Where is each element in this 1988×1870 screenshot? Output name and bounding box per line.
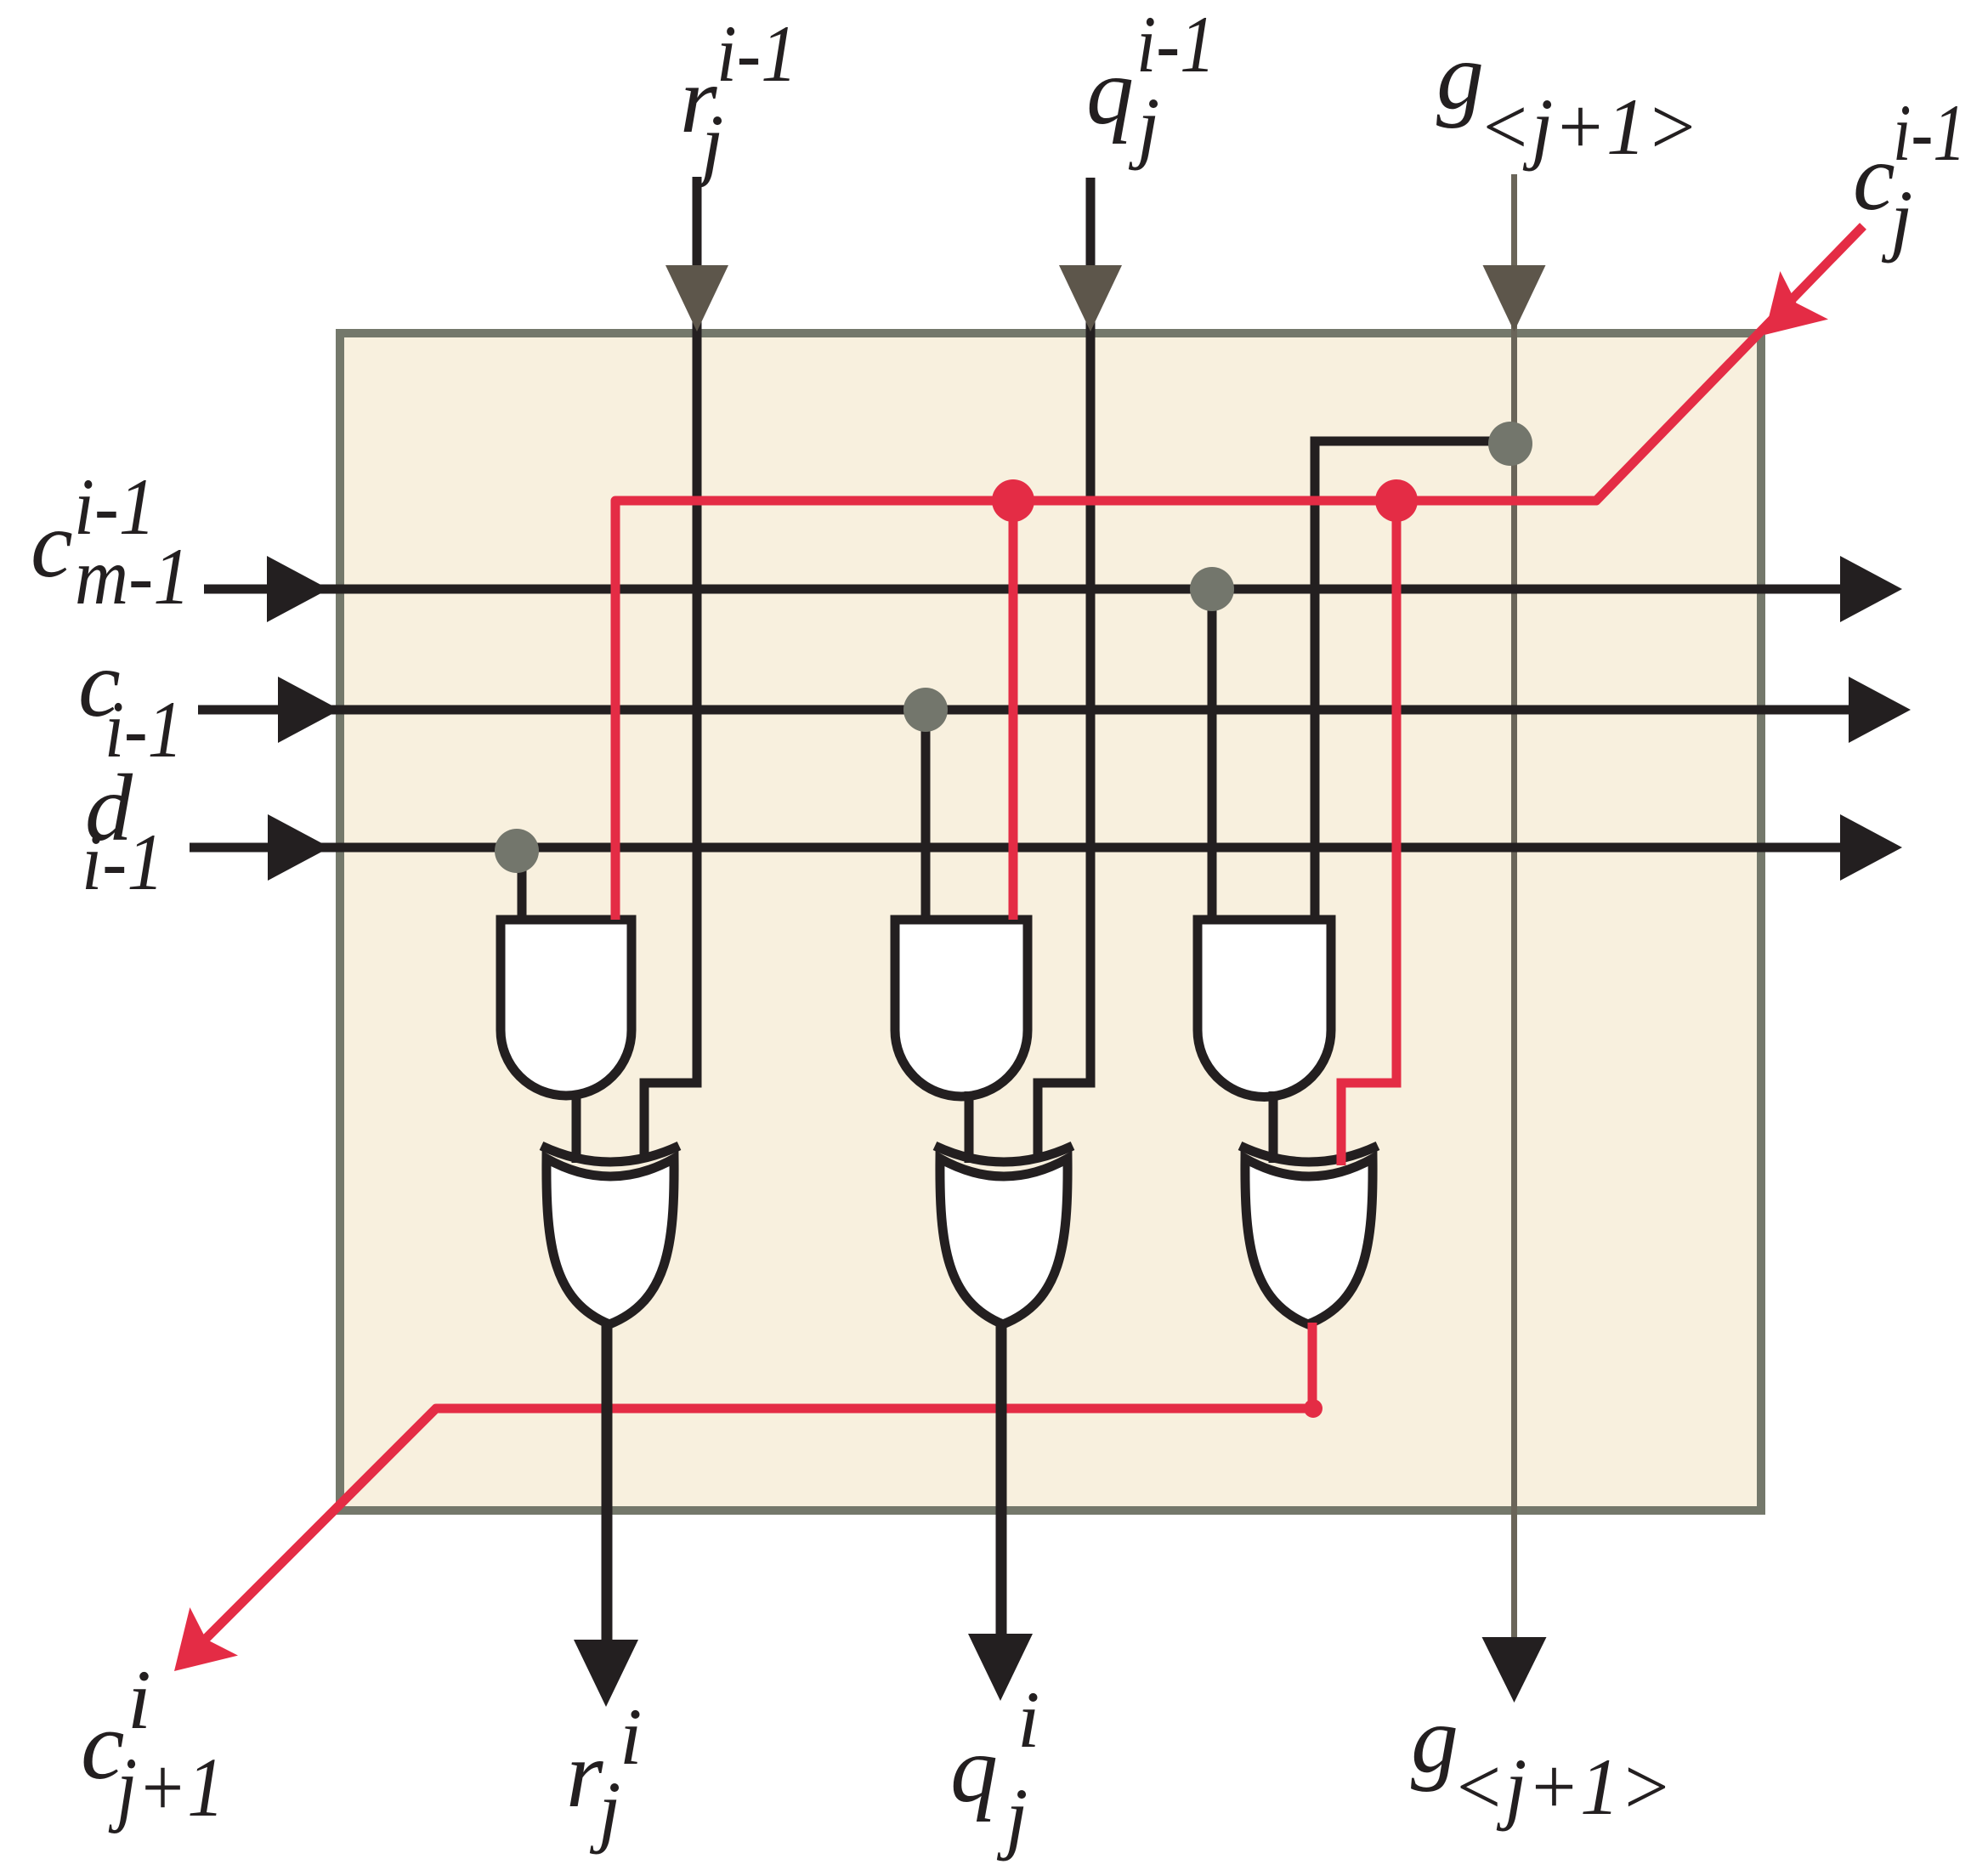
svg-text:q: q — [950, 1717, 998, 1822]
arrowhead q_j^i output — [968, 1634, 1033, 1701]
wire r_j input vertical — [693, 177, 702, 1083]
svg-text:i-1: i-1 — [82, 817, 164, 907]
wire XOR1 output crossing over red — [602, 1385, 613, 1432]
arrowhead q_j input (gray) — [1059, 265, 1122, 331]
svg-text:j+1: j+1 — [108, 1740, 224, 1834]
svg-text:i: i — [1017, 1674, 1039, 1765]
wire c_m-1 horizontal bus — [204, 585, 1841, 594]
node dot on d_i-1 at AND1 tap — [495, 829, 539, 873]
arrowhead c_m-1 output (right) — [1840, 556, 1902, 622]
arrowhead g input (gray) — [1483, 265, 1546, 331]
wire q_j jog into XOR2 — [1038, 1083, 1096, 1158]
node dot on c_m-1 at AND3 tap — [1190, 567, 1234, 611]
svg-text:i-1: i-1 — [1893, 88, 1966, 178]
svg-text:m-1: m-1 — [75, 531, 190, 621]
svg-text:j: j — [996, 1771, 1028, 1861]
wire stub c_i-1 tap down to AND2 left input — [921, 710, 931, 920]
wire XOR3 output red down-left exit c_j+1 — [181, 1323, 1312, 1663]
wire c_i-1 horizontal bus — [198, 705, 1849, 715]
svg-text:i: i — [127, 1652, 151, 1747]
XOR gate U5 (middle) — [940, 1159, 1068, 1324]
wire stub c_m-1 tap down to AND3 left input — [1208, 589, 1217, 920]
arrowhead c_m-1 input (left) — [267, 556, 329, 622]
svg-text:g: g — [1436, 24, 1484, 129]
node dot on g line tap — [1488, 422, 1532, 466]
svg-text:c: c — [31, 492, 73, 598]
wire XOR1 output r_j^i — [602, 1319, 613, 1640]
arrowhead r_j input (gray) — [665, 265, 728, 331]
arrowhead c_j carry input (red) — [1764, 271, 1828, 335]
wire d_i-1 horizontal bus — [190, 843, 1841, 853]
node red dot at AND2 drop — [992, 479, 1034, 522]
arrowhead g output (bottom) — [1482, 1637, 1547, 1703]
XOR gate U4 (left) — [547, 1159, 674, 1324]
arrowhead c_j+1 output (red) — [174, 1607, 238, 1671]
svg-text:c: c — [1853, 125, 1895, 230]
wire red drop to AND2 right input — [1009, 501, 1018, 920]
node dot on c_i-1 at AND2 tap — [903, 688, 948, 732]
wire red jog into XOR3 right input — [1341, 501, 1402, 1165]
svg-text:i-1: i-1 — [716, 8, 797, 99]
svg-text:<j+1>: <j+1> — [1452, 1742, 1673, 1832]
wire c_j carry input diagonal + horizontal (red) — [615, 226, 1863, 920]
wire AND3 output to XOR3 — [1269, 1091, 1278, 1163]
arrowhead d_i-1 output (right) — [1840, 814, 1902, 881]
XOR gate U6 (right) — [1245, 1159, 1373, 1324]
wire from g tap: left then down into AND3 right input — [1315, 441, 1514, 920]
wire XOR2 output q_j^i — [996, 1319, 1007, 1640]
arrowhead r_j^i output — [574, 1640, 638, 1707]
wire stub d_i-1 tap down to AND1 left input — [518, 847, 527, 920]
wire q_j input vertical — [1086, 178, 1096, 1083]
AND gate U1 (left) — [501, 920, 632, 1096]
svg-text:q: q — [1086, 39, 1134, 144]
arrowhead c_i-1 input (left) — [278, 677, 340, 743]
svg-text:i: i — [620, 1691, 642, 1782]
wire AND2 output to XOR2 — [965, 1091, 974, 1163]
arrowhead d_i-1 input (left) — [268, 814, 330, 881]
wire XOR2 output crossing over red — [996, 1385, 1007, 1432]
wire r_j jog into XOR1 — [644, 1083, 702, 1158]
node red corner dot at XOR3 output join — [1304, 1399, 1323, 1418]
wire g pass-through vertical (gray) — [1511, 174, 1517, 1637]
AND gate U2 (middle) — [895, 920, 1028, 1096]
arrowhead c_i-1 output (right) — [1849, 677, 1911, 743]
AND gate U3 (right) — [1198, 920, 1331, 1097]
svg-text:i-1: i-1 — [1136, 0, 1215, 89]
svg-text:<j+1>: <j+1> — [1478, 82, 1699, 172]
wire AND1 output to XOR1 — [572, 1091, 581, 1163]
node red dot at XOR3 branch — [1375, 479, 1418, 522]
box: bit-slice cell background — [340, 333, 1761, 1510]
